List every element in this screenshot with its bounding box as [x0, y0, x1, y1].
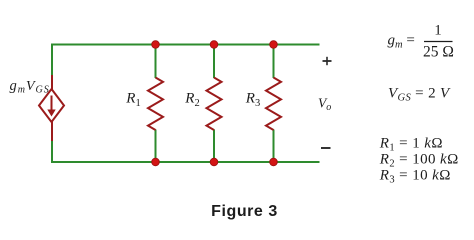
svg-text:R1: R1: [125, 91, 140, 110]
svg-text:R3: R3: [245, 91, 260, 110]
node dot top R3: [270, 41, 278, 49]
label minus terminal: [321, 147, 331, 149]
svg-text:gm =: gm =: [388, 33, 415, 51]
dependent current source gmVGS diamond: [39, 89, 64, 122]
node dot top R2: [210, 41, 218, 49]
node dot bottom R1: [152, 158, 160, 166]
wire R1 branch: [155, 44, 157, 79]
wire bottom rail: [51, 161, 320, 163]
svg-text:Vo: Vo: [318, 96, 331, 113]
resistor R1: [148, 78, 163, 131]
svg-text:VGS = 2 V: VGS = 2 V: [388, 85, 451, 103]
svg-text:25 Ω: 25 Ω: [423, 44, 454, 61]
wire left branch: [51, 44, 53, 164]
resistor R2: [207, 78, 222, 131]
svg-text:Figure 3: Figure 3: [211, 203, 278, 220]
resistor R3: [266, 78, 281, 131]
current source arrow: [51, 96, 53, 112]
wire R3 branch: [273, 44, 275, 79]
svg-text:1: 1: [434, 23, 442, 39]
node dot top R1: [152, 41, 160, 49]
node dot bottom R2: [210, 158, 218, 166]
wire top rail: [51, 44, 320, 46]
node dot bottom R3: [270, 158, 278, 166]
svg-text:R2: R2: [184, 91, 199, 110]
label plus terminal: [323, 60, 332, 62]
current source U1 leads: [51, 75, 53, 90]
wire R2 branch: [213, 44, 215, 79]
svg-text:R3 = 10 kΩ: R3 = 10 kΩ: [379, 168, 451, 186]
svg-text:gmVGS: gmVGS: [10, 78, 50, 96]
